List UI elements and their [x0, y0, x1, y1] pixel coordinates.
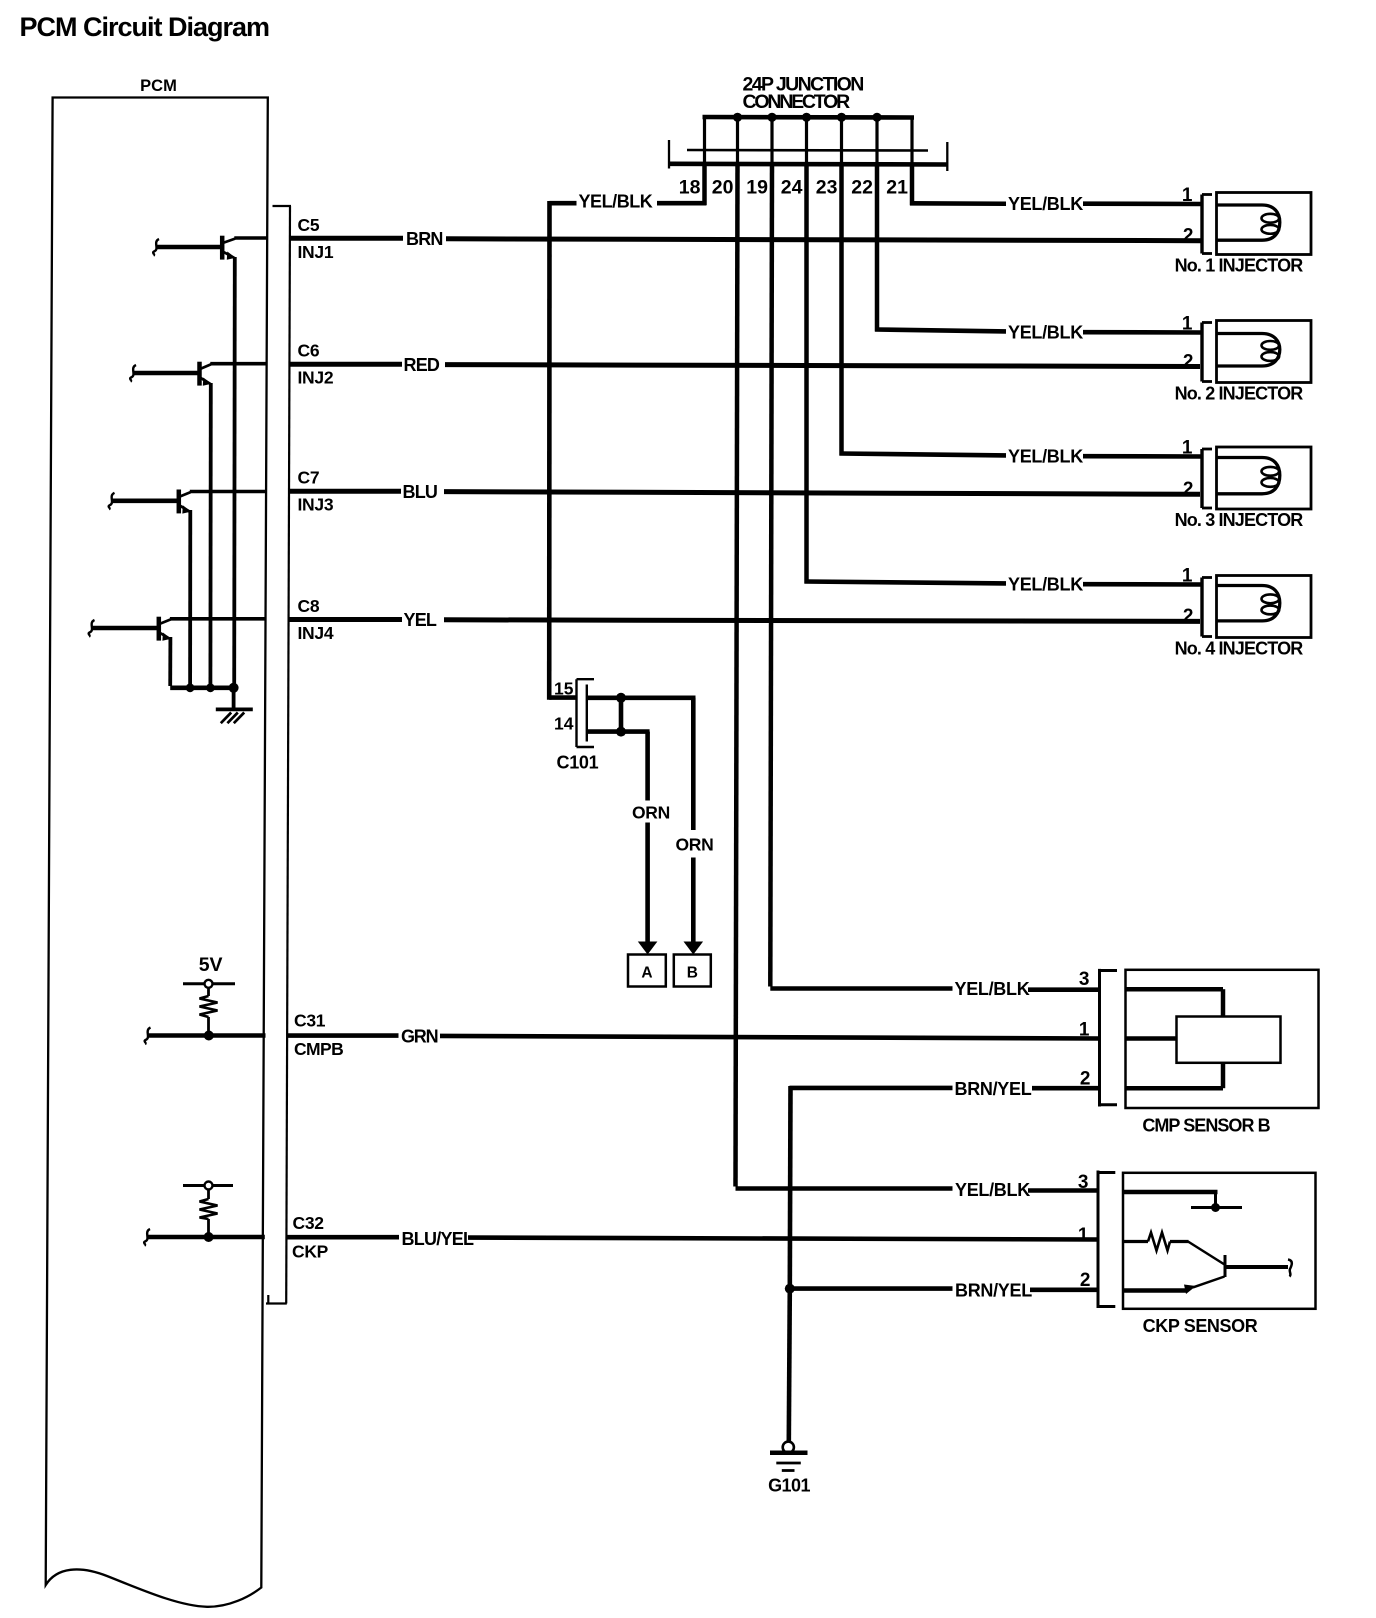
svg-text:2: 2 [1183, 226, 1194, 247]
svg-text:2: 2 [1183, 479, 1194, 500]
wire C8 YEL row to injector 4 [289, 620, 1200, 622]
No. 4 INJECTOR label [1175, 639, 1304, 659]
wire pin23 vertical drop [839, 165, 844, 456]
svg-text:C8: C8 [298, 596, 320, 616]
CKP internal junction bar and output [1188, 1242, 1292, 1278]
svg-text:24: 24 [781, 177, 803, 199]
wire Q3 emitter down [188, 510, 192, 689]
injector connector bracket (No. 4 INJECTOR) [1202, 578, 1212, 637]
CMP sensor connector bracket [1100, 969, 1118, 1107]
svg-text:1: 1 [1079, 1020, 1090, 1041]
svg-text:C101: C101 [557, 753, 599, 773]
svg-text:RED: RED [404, 355, 440, 375]
5V supply symbol (CMPB pull-up) [183, 980, 235, 996]
RED label [404, 355, 440, 375]
wire BRN/YEL vertical down to G101 [789, 1086, 791, 1442]
node C7 / INJ3 labels [298, 468, 334, 515]
transistor Q2 (injector 2 driver, NPN) [130, 362, 266, 386]
wire YEL/BLK into CMP pin 3 [1028, 987, 1099, 992]
junction connector body [669, 140, 947, 171]
svg-text:B: B [687, 965, 698, 982]
ground G101 (earth) [770, 1442, 808, 1471]
junction dots C101 link [616, 693, 626, 737]
ground (PCM internal chassis ground) [216, 688, 253, 723]
wire YEL/BLK to No. 3 INJECTOR [840, 454, 1203, 457]
svg-text:CKP: CKP [292, 1242, 329, 1262]
YEL/BLK label (CKP pin 3) [955, 1180, 1030, 1200]
wire BRN/YEL from CKP pin 2 to ground vertical [789, 1289, 1097, 1290]
svg-text:1: 1 [1182, 314, 1193, 335]
C101 label [557, 753, 599, 773]
G101 label [768, 1476, 810, 1496]
node C8 / INJ4 labels [298, 596, 334, 643]
node C32 / CKP labels [292, 1213, 329, 1262]
svg-text:C31: C31 [294, 1011, 326, 1031]
GRN label [401, 1027, 438, 1047]
svg-text:PCM: PCM [140, 77, 177, 95]
svg-text:BLU: BLU [403, 482, 438, 502]
wire emitter common bus [170, 685, 234, 690]
injector connector bracket (No. 1 INJECTOR) [1202, 195, 1212, 254]
wire YEL/BLK to No. 1 INJECTOR [910, 201, 1202, 206]
svg-text:YEL/BLK: YEL/BLK [1008, 194, 1083, 214]
wire C7 BLU row to injector 3 [290, 491, 1201, 494]
svg-text:No. 2 INJECTOR: No. 2 INJECTOR [1175, 384, 1304, 404]
svg-text:INJ3: INJ3 [298, 495, 334, 515]
PCM connector strip (right of PCM box) [266, 206, 291, 1304]
resistor R1 (CMPB pull-up) [200, 996, 218, 1036]
wire link between pin15 and pin14 wires [619, 698, 624, 732]
YEL/BLK label (No. 3 INJECTOR pin 1) [1008, 446, 1083, 466]
CKP internal shield ground [1123, 1192, 1242, 1212]
svg-text:YEL/BLK: YEL/BLK [1008, 446, 1083, 466]
junction dot BRN/YEL at CKP pin 2 wire [785, 1284, 795, 1294]
svg-text:G101: G101 [768, 1476, 810, 1496]
svg-text:20: 20 [712, 177, 734, 199]
pin number 1 (No. 1 INJECTOR) [1182, 185, 1193, 206]
svg-text:INJ1: INJ1 [298, 242, 334, 262]
BRN/YEL label (CKP pin 2) [955, 1281, 1032, 1301]
wire C32 CKP inside PCM [144, 1229, 265, 1246]
ORN label (wire to B) [676, 835, 714, 855]
injector No. 3 INJECTOR box with solenoid coil [1217, 447, 1312, 509]
No. 1 INJECTOR label [1175, 256, 1304, 276]
transistor Q1 (injector 1 driver, NPN) [153, 236, 266, 260]
PCM box (powertrain control module outline) [46, 98, 268, 1607]
svg-text:15: 15 [554, 679, 574, 699]
CMP SENSOR B label [1142, 1116, 1270, 1136]
wire C5 BRN row to injector 1 [290, 238, 1202, 240]
arrow to destination B [684, 942, 704, 955]
24P junction connector bus bar [703, 115, 915, 120]
svg-text:18: 18 [679, 177, 701, 199]
wire pin19 vertical to CMP sensor row [770, 165, 952, 989]
svg-text:3: 3 [1079, 969, 1090, 990]
svg-text:2: 2 [1183, 351, 1194, 372]
svg-text:1: 1 [1182, 438, 1193, 459]
YEL/BLK label (pin 18) [579, 192, 653, 212]
junction dots on emitter bus [186, 683, 239, 693]
24P junction connector label [743, 73, 864, 113]
pin number 2 (No. 4 INJECTOR) [1183, 606, 1194, 627]
svg-text:No. 1 INJECTOR: No. 1 INJECTOR [1175, 256, 1304, 276]
pin number 2 (No. 3 INJECTOR) [1183, 479, 1194, 500]
BLU/YEL label [402, 1229, 475, 1249]
svg-text:BRN/YEL: BRN/YEL [955, 1281, 1032, 1301]
CKP internal pickup coil resistor [1123, 1233, 1189, 1251]
svg-text:21: 21 [886, 177, 908, 199]
wire pin22 vertical drop [875, 165, 880, 332]
pin number 1 (CKP) [1078, 1225, 1089, 1246]
wire pin18 YEL/BLK to long vertical [550, 165, 707, 205]
svg-text:ORN: ORN [632, 803, 670, 823]
wire C6 RED row to injector 2 [290, 364, 1201, 366]
wire Q4 emitter down [168, 637, 172, 686]
node C6 / INJ2 labels [298, 341, 334, 388]
svg-text:1: 1 [1182, 566, 1193, 587]
svg-text:1: 1 [1182, 185, 1193, 206]
svg-text:CONNECTOR: CONNECTOR [743, 91, 851, 113]
svg-text:YEL/BLK: YEL/BLK [1008, 322, 1083, 342]
YEL/BLK label (No. 2 INJECTOR pin 1) [1008, 322, 1083, 342]
pin number 1 (No. 4 INJECTOR) [1182, 566, 1193, 587]
CMP sensor B component box [1126, 970, 1319, 1108]
svg-text:2: 2 [1183, 606, 1194, 627]
svg-text:22: 22 [851, 177, 873, 199]
BLU label [403, 482, 438, 502]
pin number 1 (No. 2 INJECTOR) [1182, 314, 1193, 335]
pin number 3 (CKP) [1078, 1172, 1089, 1193]
pin number 2 (CKP) [1080, 1270, 1091, 1291]
svg-text:14: 14 [554, 714, 574, 734]
node C5 / INJ1 labels [298, 215, 334, 262]
svg-text:YEL/BLK: YEL/BLK [1008, 574, 1083, 594]
ORN label (wire to A) [632, 803, 670, 823]
svg-text:YEL: YEL [404, 610, 437, 630]
resistor R2 (CKP pull-up) [200, 1199, 218, 1238]
svg-text:CKP SENSOR: CKP SENSOR [1143, 1316, 1258, 1336]
YEL/BLK label (CMP pin 3) [955, 979, 1030, 999]
5V label [199, 954, 223, 976]
node C31 / CMPB labels [294, 1011, 343, 1060]
wire C101 pin15 to node B drop [588, 698, 696, 942]
CKP internal pin2 lead with arrow [1123, 1277, 1225, 1295]
junction dot R1 to C31 wire [204, 1031, 214, 1041]
PCM label [140, 77, 177, 95]
junction pin numbers 18 20 19 24 23 22 21 [679, 177, 908, 199]
pin number 2 (No. 2 INJECTOR) [1183, 351, 1194, 372]
YEL/BLK label (No. 1 INJECTOR pin 1) [1008, 194, 1083, 214]
pin number 3 (CMP) [1079, 969, 1090, 990]
wire YEL/BLK to No. 4 INJECTOR [805, 582, 1203, 585]
svg-text:1: 1 [1078, 1225, 1089, 1246]
CKP SENSOR label [1143, 1316, 1258, 1336]
wire C101 pin14 to node A drop [588, 732, 650, 942]
pin number 2 (No. 1 INJECTOR) [1183, 226, 1194, 247]
pin number 14 [554, 714, 574, 734]
svg-text:A: A [641, 965, 652, 982]
svg-text:YEL/BLK: YEL/BLK [955, 979, 1030, 999]
wire long vertical YEL/BLK down to C101 pin 15 [549, 201, 576, 700]
junction dot R2 to C32 wire [204, 1232, 214, 1242]
pin number 2 (CMP) [1080, 1069, 1091, 1090]
YEL/BLK label (No. 4 INJECTOR pin 1) [1008, 574, 1083, 594]
BRN/YEL label (CMP pin 2) [955, 1079, 1032, 1099]
pin number 1 (CMP) [1079, 1020, 1090, 1041]
injector No. 4 INJECTOR box with solenoid coil [1217, 576, 1312, 638]
svg-text:ORN: ORN [676, 835, 714, 855]
svg-text:BRN: BRN [406, 229, 443, 249]
wire Q1 emitter down [232, 257, 236, 689]
wire pin20 vertical to CKP sensor row [736, 165, 953, 1189]
No. 3 INJECTOR label [1175, 510, 1304, 530]
injector connector bracket (No. 2 INJECTOR) [1202, 323, 1212, 382]
svg-text:CMP SENSOR B: CMP SENSOR B [1142, 1116, 1270, 1136]
wire C31 CMPB inside PCM [145, 1028, 266, 1045]
title text [20, 12, 270, 42]
wire pin21 vertical drop [910, 165, 915, 205]
svg-text:GRN: GRN [401, 1027, 438, 1047]
pin number 1 (No. 3 INJECTOR) [1182, 438, 1193, 459]
wire YEL/BLK into CKP pin 3 [1028, 1188, 1097, 1193]
arrow to destination A [638, 942, 658, 955]
svg-text:C6: C6 [298, 341, 320, 361]
CKP sensor component box [1123, 1173, 1316, 1309]
CKP sensor connector bracket [1098, 1171, 1115, 1309]
wire Q2 emitter down [208, 383, 212, 689]
No. 2 INJECTOR label [1175, 384, 1304, 404]
svg-text:No. 3 INJECTOR: No. 3 INJECTOR [1175, 510, 1304, 530]
injector No. 2 INJECTOR box with solenoid coil [1217, 321, 1312, 383]
svg-text:INJ2: INJ2 [298, 368, 334, 388]
svg-text:BLU/YEL: BLU/YEL [402, 1229, 475, 1249]
svg-text:CMPB: CMPB [294, 1039, 343, 1059]
svg-text:3: 3 [1078, 1172, 1089, 1193]
svg-text:C32: C32 [293, 1213, 325, 1233]
destination box A [628, 955, 666, 987]
wire BRN/YEL from CMP pin 2 to ground vertical [790, 1086, 1099, 1091]
svg-text:BRN/YEL: BRN/YEL [955, 1079, 1032, 1099]
transistor Q4 (injector 4 driver, NPN) [89, 617, 267, 641]
destination box B [674, 955, 711, 987]
junction bus dots [733, 113, 882, 122]
svg-text:YEL/BLK: YEL/BLK [579, 192, 653, 212]
wire YEL/BLK to No. 2 INJECTOR [875, 330, 1202, 333]
wire GRN C31 to CMP sensor pin 1 [288, 1036, 1099, 1039]
svg-text:5V: 5V [199, 954, 223, 976]
wire BLU/YEL C32 to CKP sensor pin 1 [287, 1237, 1098, 1239]
svg-text:23: 23 [816, 177, 838, 199]
wire pin24 vertical drop [804, 165, 809, 584]
svg-text:19: 19 [746, 177, 768, 199]
pin number 15 [554, 679, 574, 699]
svg-text:C7: C7 [298, 468, 320, 488]
injector No. 1 INJECTOR box with solenoid coil [1217, 193, 1312, 255]
svg-text:No. 4 INJECTOR: No. 4 INJECTOR [1175, 639, 1304, 659]
connector C101 (pins 15/14) [577, 679, 595, 747]
YEL label [404, 610, 437, 630]
transistor Q3 (injector 3 driver, NPN) [109, 490, 267, 514]
injector connector bracket (No. 3 INJECTOR) [1202, 449, 1212, 508]
svg-text:YEL/BLK: YEL/BLK [955, 1180, 1030, 1200]
svg-text:C5: C5 [298, 215, 320, 235]
junction connector stubs (bus to body) [705, 117, 913, 165]
svg-text:PCM Circuit Diagram: PCM Circuit Diagram [20, 12, 270, 42]
BRN label [406, 229, 443, 249]
5V supply symbol (CKP pull-up) [183, 1182, 233, 1200]
svg-text:INJ4: INJ4 [298, 623, 334, 643]
